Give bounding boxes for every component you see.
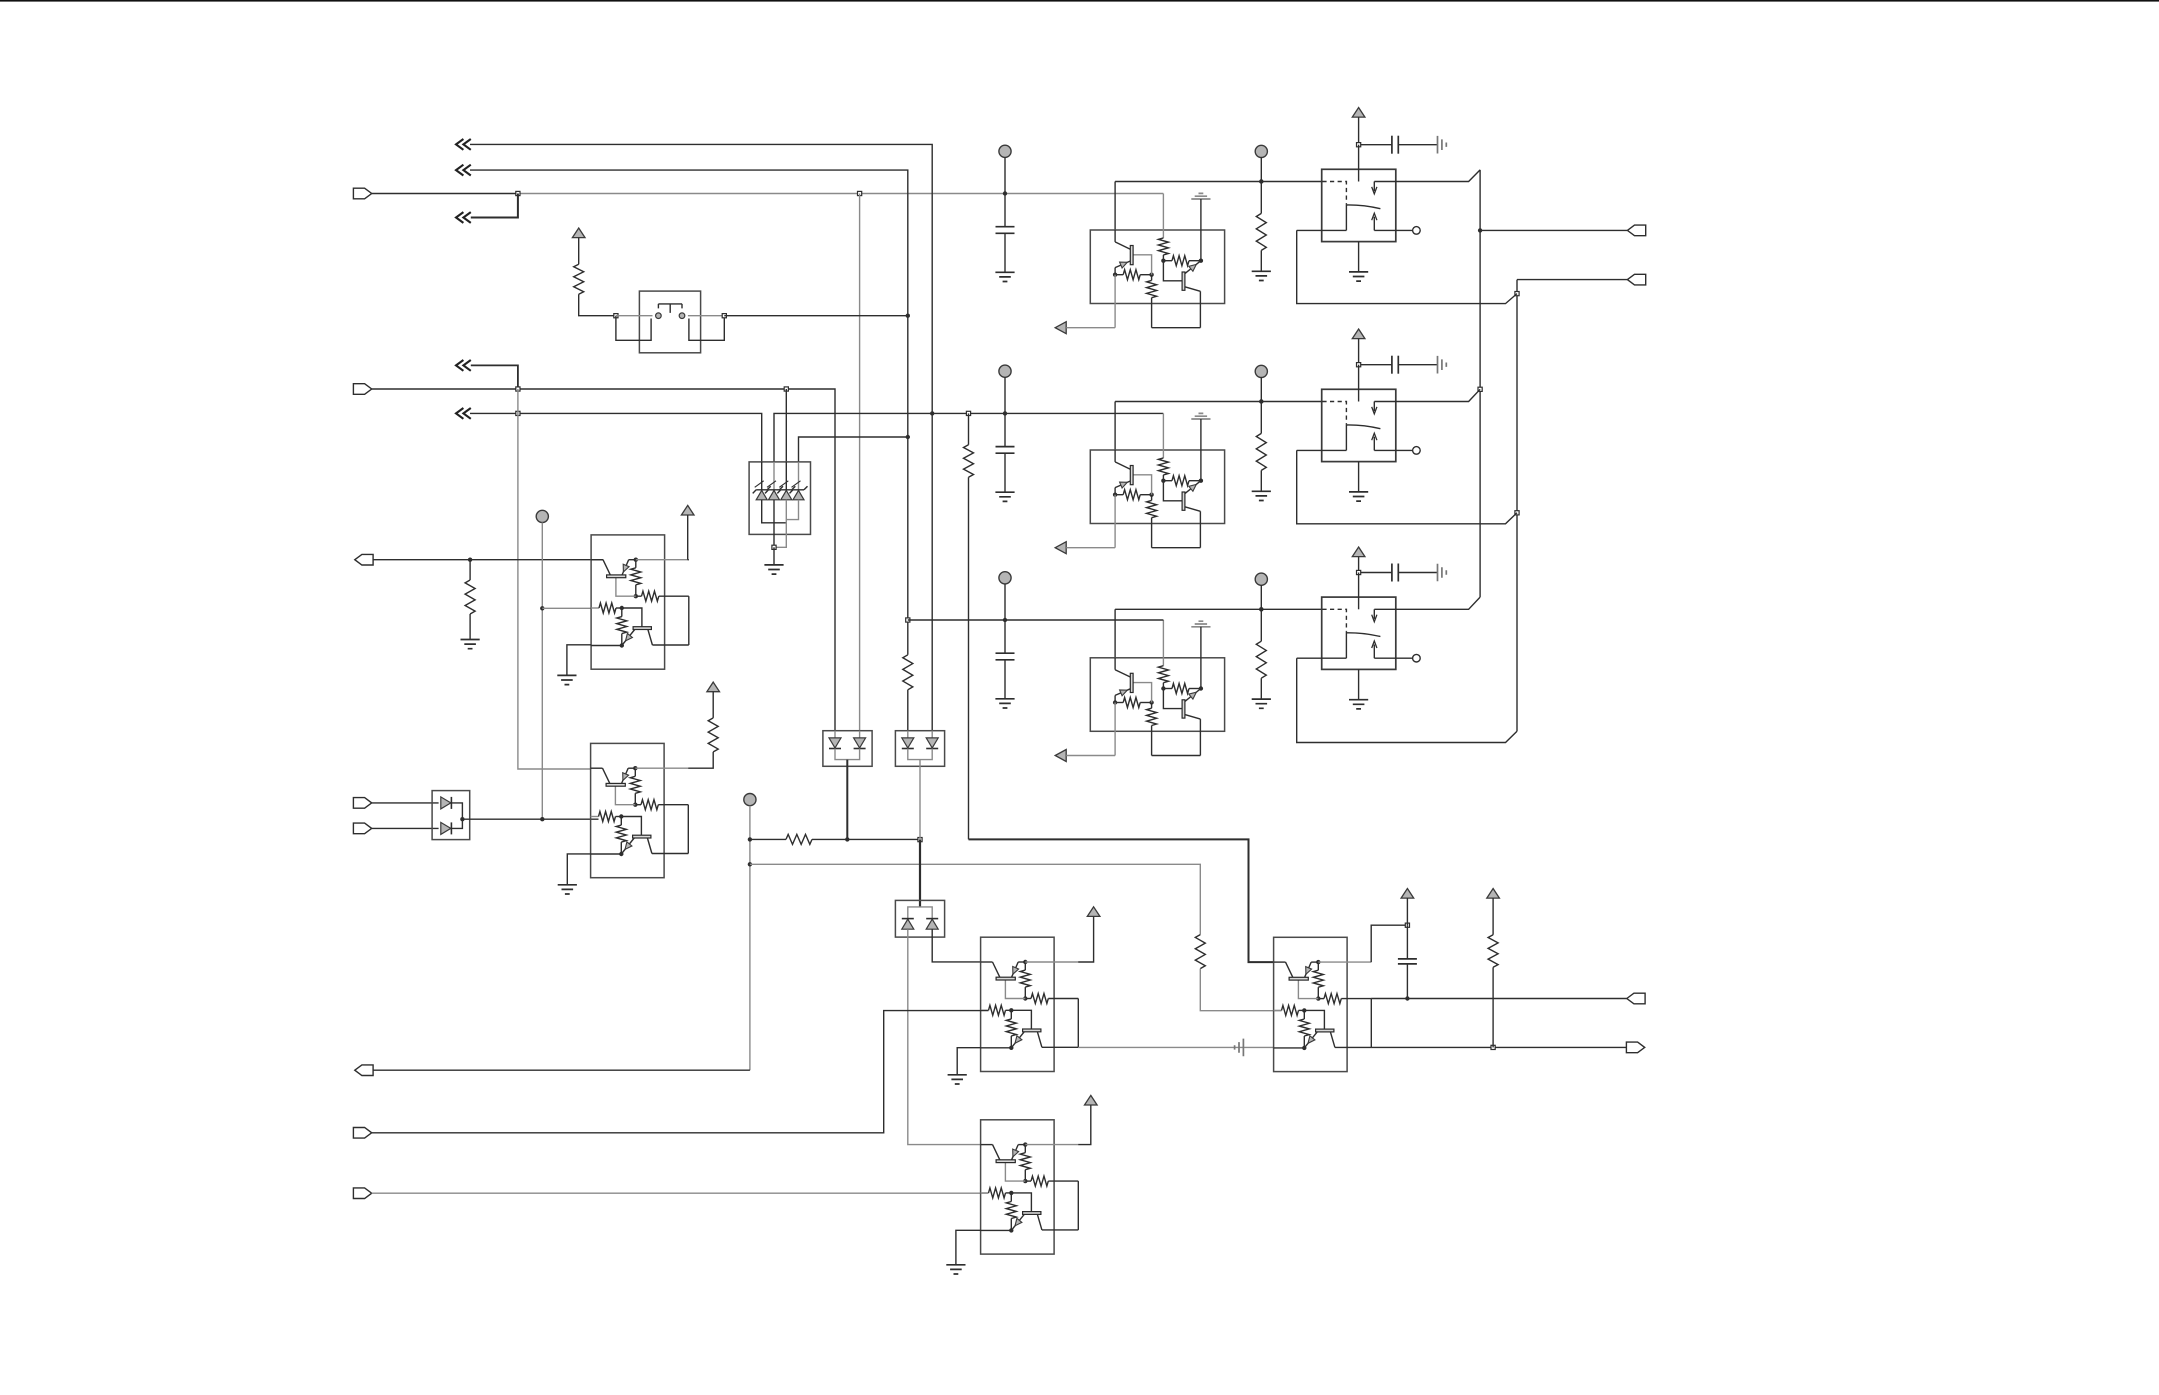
wire P2 tap down xyxy=(919,760,921,840)
wire net IN1 segment B xyxy=(518,193,1163,195)
diode P1-a xyxy=(829,738,841,748)
wire drive line RLY1 xyxy=(1115,181,1322,183)
diode P1-b xyxy=(854,738,866,748)
wire V-B2 shaft xyxy=(1406,898,1408,925)
off-page chevron A3 xyxy=(456,212,471,223)
wire P4 to D4 xyxy=(372,802,439,804)
pin/resistor assembly row 2 xyxy=(1255,365,1267,377)
transistor block U-B1 xyxy=(981,937,1055,1071)
wire K1 common route xyxy=(1297,230,1517,303)
junction IN2 at x=517.9 xyxy=(516,387,520,391)
wire sw right lead xyxy=(688,315,724,317)
wire P8 line to B3 input xyxy=(372,1192,989,1194)
junction busB/K1 common xyxy=(1515,292,1519,296)
wire V-B1 shaft xyxy=(1078,916,1093,962)
transistor block U-R3 xyxy=(1090,658,1224,732)
wire R-sw to switch xyxy=(579,294,616,315)
wire drive elbow into block U-R2 xyxy=(1114,402,1116,451)
wire K2 common route xyxy=(1297,450,1517,523)
ground GND-B1 xyxy=(948,1075,967,1084)
switch SW1 contact left xyxy=(656,313,662,319)
wire R-L2vcc to emitter line xyxy=(688,752,713,768)
port P5 (input, left) xyxy=(353,823,371,834)
zener diode Z1-3 lead xyxy=(785,462,787,490)
wire U-R2 emitter to arrow xyxy=(1066,547,1115,549)
junction sw right xyxy=(722,314,726,318)
wire P3-b out (to B1) xyxy=(932,929,980,962)
pin/cap/ground assembly C-row3 xyxy=(999,572,1011,584)
wire V-out shaft xyxy=(1492,898,1494,935)
zener diode Z1-3 xyxy=(781,490,792,499)
switch SW1 right pin loop xyxy=(689,316,724,341)
vcc arrow V-L1 xyxy=(681,505,694,515)
junction PAD2/R-row xyxy=(748,837,752,841)
wire sw left lead xyxy=(616,315,653,317)
off-page arrow U-R2 xyxy=(1055,542,1066,554)
wire K1 top-pin out xyxy=(1396,170,1480,182)
inverted ground U-R2 xyxy=(1191,413,1210,419)
wire x968 riser top xyxy=(968,413,970,444)
diode P1-a lead xyxy=(834,731,836,738)
junction zener ground xyxy=(772,545,776,549)
wire input net riser U-R2 xyxy=(1162,413,1164,450)
diode P3-b xyxy=(926,919,938,929)
wire R-B2in to B2 input xyxy=(1200,969,1281,1011)
zener diode Z1-1 lead xyxy=(761,462,763,490)
bus A vertical xyxy=(1479,170,1481,597)
top border bar xyxy=(0,0,2159,2)
capacitor C-B2 xyxy=(1406,925,1408,959)
junction IN1/x859 riser xyxy=(858,191,862,195)
diode P2-a xyxy=(902,738,914,748)
zener diode Z1-4 lead xyxy=(798,462,800,490)
wire U-R3 emitter to arrow xyxy=(1066,755,1115,757)
wire P1 tap down xyxy=(846,760,848,840)
junction P1-tap/R-row xyxy=(845,837,849,841)
junction PAD2/gray-row xyxy=(748,862,752,866)
wire V1 to R-sw xyxy=(578,238,580,265)
zener diode Z1-4 xyxy=(793,490,804,499)
resistor R-907 xyxy=(903,655,913,690)
off-page chevron A2 xyxy=(456,165,471,176)
relay K3 xyxy=(1322,597,1396,669)
resistor R-out xyxy=(1488,935,1498,968)
junction PAD1/L1 input xyxy=(540,606,544,610)
switch SW1 actuator xyxy=(658,304,682,313)
wire gray riser x=517.9 down to U-L2 xyxy=(518,389,591,769)
transistor block U-L1 xyxy=(591,535,665,669)
port P6 (output left) xyxy=(355,1065,373,1076)
ground GND-L1 xyxy=(557,675,576,684)
wire net P3 to U-L1 xyxy=(373,559,603,561)
relay K1 xyxy=(1322,169,1396,241)
junction D4-out/PAD1 riser xyxy=(540,817,544,821)
wire drive elbow into block U-R1 xyxy=(1114,182,1116,231)
junction B2-vcc/cap xyxy=(1405,923,1409,927)
wire K2 top-pin out xyxy=(1396,389,1480,401)
vcc arrow V-out xyxy=(1487,889,1500,899)
wire collector-out line B1-B2 xyxy=(1078,1046,1273,1048)
wire drive line RLY3 xyxy=(1115,608,1322,610)
pin/resistor assembly row 3 xyxy=(1255,573,1267,585)
junction P3/R-P3 xyxy=(468,558,472,562)
port P8 (input left) xyxy=(353,1188,371,1199)
vcc arrow V-B2 xyxy=(1401,889,1414,899)
transistor block U-L2 xyxy=(591,743,665,877)
junction SW-out/x907 xyxy=(906,314,910,318)
zener diode Z1-1 xyxy=(756,490,767,499)
port P11 (output right) xyxy=(1627,993,1645,1004)
diode pack P3 box xyxy=(895,900,944,937)
vcc/cap/ground assembly RLY2 xyxy=(1352,329,1365,339)
wire x932 riser xyxy=(931,413,933,730)
wire SW1 output to x907 riser xyxy=(724,315,908,317)
wire U-L1 ground lead xyxy=(567,645,591,676)
port P3 (output, left) xyxy=(355,554,373,565)
relay K2 xyxy=(1322,389,1396,461)
off-page chevron A1 xyxy=(456,139,471,150)
port P4 (input, left) xyxy=(353,798,371,809)
ground GND-B3 xyxy=(946,1265,965,1274)
wire OUT4 line xyxy=(1371,1046,1626,1048)
wire net IN1 segment A xyxy=(372,193,518,195)
resistor R-B2in xyxy=(1195,935,1205,969)
transistor block U-R1 xyxy=(1090,230,1224,304)
wire input net riser U-R3 xyxy=(1162,620,1164,658)
resistor R-968 xyxy=(964,445,974,477)
diode P3-a xyxy=(902,919,914,929)
wire P3 tap top xyxy=(908,907,932,919)
wire zener d3 bottom tap xyxy=(774,500,786,548)
resistor R-P3 xyxy=(465,580,475,614)
pin/cap/ground assembly C-row2 xyxy=(999,365,1011,377)
wire P1 tap xyxy=(835,749,860,760)
wire zener pin3 riser xyxy=(785,389,787,462)
wire inverted-ground shaft U-R3 xyxy=(1200,627,1202,658)
zener block Z1 box xyxy=(749,462,810,535)
wire P6 line xyxy=(373,1069,750,1071)
inverted ground U-R1 xyxy=(1191,193,1210,199)
wire inverted-ground shaft U-R2 xyxy=(1200,419,1202,450)
wire L1 input xyxy=(542,607,591,609)
vcc arrow V-B1 xyxy=(1087,907,1100,917)
wire x907 riser to diode pack xyxy=(907,690,909,731)
diode P1-b lead xyxy=(859,731,861,738)
port P7 (input left) xyxy=(353,1128,371,1139)
diode D4-b xyxy=(441,822,451,834)
wire net Z2 pin2 right xyxy=(774,413,1163,462)
vcc arrow V-B3 xyxy=(1085,1095,1098,1105)
wire R-row to P1 tap xyxy=(812,838,920,840)
wire P3 resistor leads xyxy=(469,560,471,580)
junction IN2 zener pin3 xyxy=(784,387,788,391)
wire zener pin4 line xyxy=(799,437,908,462)
wire PAD2 riser long xyxy=(749,806,751,1070)
junction on IN1 at x=517.9 xyxy=(516,191,520,195)
wire chevron A5 line to zener pin1 xyxy=(470,413,762,462)
wire IN1 branch to chevron xyxy=(471,194,518,218)
wire chevron A2 line xyxy=(470,170,908,316)
junction OUT4/R-out xyxy=(1491,1045,1495,1049)
junction A5-line at x=517.9 xyxy=(516,411,520,415)
wire D4 output join xyxy=(451,803,462,829)
rotated ground GND-B2L xyxy=(1235,1039,1244,1057)
bus B vertical xyxy=(1516,280,1518,732)
wire zener to ground xyxy=(773,547,775,565)
off-page chevron A5 xyxy=(456,408,471,419)
pin PAD1 xyxy=(536,510,548,522)
transistor block U-R2 xyxy=(1090,450,1224,524)
port P2 (input, left) xyxy=(353,384,371,395)
junction sw left xyxy=(614,314,618,318)
resistor R-row xyxy=(786,834,812,844)
junction D4 out xyxy=(460,817,464,821)
wire zener d4 bottom xyxy=(786,500,798,520)
wire x968 riser mid2 xyxy=(968,477,970,839)
wire relay3 input net xyxy=(908,619,1164,621)
transistor block U-B3 xyxy=(981,1120,1055,1254)
wire U-B1 ground lead xyxy=(957,1048,980,1075)
wire PAD1 riser xyxy=(541,523,543,820)
ground GND-Z xyxy=(764,565,783,574)
off-page chevron A4 xyxy=(456,360,471,371)
port P1 (input, left) xyxy=(353,188,371,199)
diode block D4 box xyxy=(432,791,470,840)
switch SW1 contact right xyxy=(679,313,685,319)
wire K3 top-pin out xyxy=(1396,597,1480,609)
wire P7 line to B1 input xyxy=(372,1011,989,1133)
diode P2-a lead xyxy=(907,731,909,738)
pin PAD2 xyxy=(744,794,756,806)
wire D4 output to L2 xyxy=(462,818,598,820)
vcc arrow V-L2 xyxy=(707,682,720,692)
diode pack P2 box xyxy=(895,731,944,767)
wire inverted-ground shaft U-R1 xyxy=(1200,199,1202,230)
zener diode Z1-2 xyxy=(769,490,780,499)
vcc/cap/ground assembly RLY1 xyxy=(1352,108,1365,118)
diode pack P1 box xyxy=(823,731,872,767)
junction cap/OUT3 line xyxy=(1405,996,1409,1000)
diode P2-b xyxy=(926,738,938,748)
vcc/cap/ground assembly RLY3 xyxy=(1352,547,1365,557)
pin/cap/ground assembly C-row1 xyxy=(999,145,1011,157)
junction drive/pin RLY1 xyxy=(1259,179,1263,183)
wire zener d2 bottom tap xyxy=(773,500,775,548)
resistor R-sw xyxy=(574,264,584,294)
junction Z2/chevA1 riser xyxy=(930,411,934,415)
junction busA/OUT1 xyxy=(1478,228,1482,232)
off-page arrow U-R1 xyxy=(1055,322,1066,334)
wire V-L1 shaft xyxy=(687,515,689,560)
wire x968 net to B2 drive (heavy) xyxy=(969,839,1274,962)
wire V-B3 shaft xyxy=(1078,1105,1091,1145)
wire K3 common route xyxy=(1297,658,1517,742)
zener diode Z1-2 lead xyxy=(773,462,775,490)
diode D4-a xyxy=(441,797,451,809)
wire zener d1 bottom xyxy=(762,500,787,523)
wire OUT2 line xyxy=(1517,279,1627,281)
resistor R-L2vcc xyxy=(708,718,718,752)
port P10 (output right) xyxy=(1627,274,1645,285)
junction busA/K2 diag xyxy=(1478,387,1482,391)
transistor block U-B2 xyxy=(1274,937,1348,1071)
junction R-row/P2-tap xyxy=(918,838,922,842)
wire P2 tap xyxy=(908,749,932,760)
port P12 (output right, pointing) xyxy=(1626,1042,1644,1053)
ground GND-P3 xyxy=(461,640,480,649)
wire OUT1 line xyxy=(1480,229,1627,231)
off-page arrow U-R3 xyxy=(1055,750,1066,762)
wire OUT3 line xyxy=(1371,998,1627,1000)
switch SW1 box xyxy=(639,291,700,353)
wire U-R1 emitter to arrow xyxy=(1066,327,1115,329)
wire U-B3 ground lead xyxy=(956,1230,981,1265)
junction pin4/x907 xyxy=(906,435,910,439)
wire gray row to B2 riser xyxy=(750,864,1200,934)
wire net IN2 horizontal xyxy=(372,389,835,731)
junction drive/pin RLY2 xyxy=(1259,399,1263,403)
port P9 (output right) xyxy=(1627,225,1645,236)
wire chevron A4 branch xyxy=(471,365,518,389)
wire x907 riser mid xyxy=(907,316,909,655)
ground GND-L2 xyxy=(558,885,577,894)
vcc arrow V1 xyxy=(572,228,585,238)
wire U-L2 ground lead xyxy=(567,854,590,885)
wire drive line RLY2 xyxy=(1115,401,1322,403)
wire chevron A1 line xyxy=(470,144,932,413)
diode P2-b lead xyxy=(931,731,933,738)
junction drive/pin RLY3 xyxy=(1259,607,1263,611)
junction busB/K2 common xyxy=(1515,511,1519,515)
wire input net riser U-R1 xyxy=(1162,194,1164,231)
wire R-row lead xyxy=(750,838,786,840)
wire U-B2 emitter riser xyxy=(1371,925,1407,962)
junction x907/relay3-net xyxy=(906,618,910,622)
wire drive elbow into block U-R3 xyxy=(1114,609,1116,658)
wire P2 tap to P3 pack xyxy=(919,840,921,907)
wire P5 to D4 xyxy=(372,827,439,829)
pin/resistor assembly row 1 xyxy=(1255,145,1267,157)
inverted ground U-R3 xyxy=(1191,621,1210,627)
wire R-out to OUT4 xyxy=(1492,967,1494,1047)
switch SW1 left pin loop xyxy=(616,316,651,341)
junction Z2/x968 riser xyxy=(966,411,970,415)
wire P3-a out (to B3) xyxy=(908,929,981,1144)
wire x859 riser to diode pack P1 xyxy=(859,194,861,731)
wire V-L2 shaft xyxy=(712,692,714,718)
